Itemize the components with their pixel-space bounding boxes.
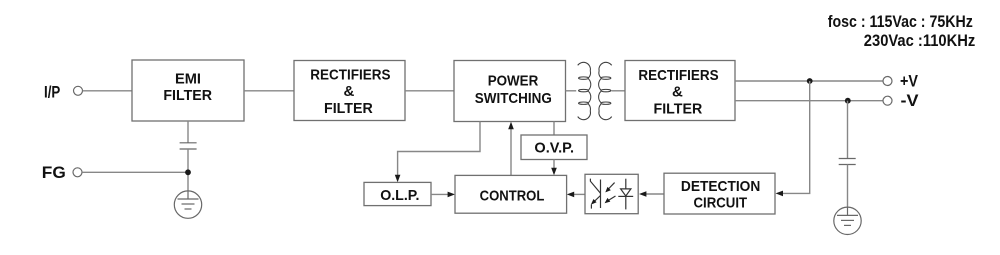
svg-text:EMI: EMI [175,71,201,88]
wire -V junction down to capacitor [847,101,849,158]
optocoupler phototransistor [590,179,600,209]
wire POWER SWITCHING to transformer [566,90,577,92]
wire POWER SWITCHING to O.L.P. [398,122,480,180]
block POWER SWITCHING [454,61,566,122]
ground (FG earth) [174,191,201,218]
wire optocoupler to CONTROL [570,193,585,195]
wire capacitor to FG ground [187,149,189,191]
svg-text:-V: -V [901,92,919,110]
svg-text:O.V.P.: O.V.P. [534,139,574,156]
terminal -V [883,96,892,105]
svg-text:POWER: POWER [488,72,539,89]
node junction on -V [845,98,851,104]
arrowhead into optocoupler right [639,191,646,197]
svg-text:RECTIFIERS: RECTIFIERS [310,67,390,84]
block CONTROL [455,175,567,213]
arrowhead on phototransistor emitter [591,199,597,205]
svg-text:RECTIFIERS: RECTIFIERS [638,67,718,84]
terminal I/P [74,86,83,95]
svg-text:CONTROL: CONTROL [480,187,545,204]
arrowhead into CONTROL top [551,168,557,175]
wire capacitor to ground [847,165,849,208]
wire CONTROL up to POWER SWITCHING [510,125,512,175]
svg-text:fosc : 115Vac : 75KHz: fosc : 115Vac : 75KHz [828,13,973,31]
arrowhead into CONTROL right [567,192,574,198]
wire I/P to EMI FILTER [83,90,132,92]
wire +V output [735,80,883,82]
svg-text:I/P: I/P [44,84,60,102]
svg-text:&: & [343,83,354,100]
wire +V junction down to DETECTION CIRCUIT [779,81,810,193]
svg-text:O.L.P.: O.L.P. [380,187,419,204]
arrowhead into O.L.P. top [395,175,401,182]
block EMI FILTER [132,60,244,121]
block RECTIFIERS & FILTER (output) [625,61,735,121]
svg-text:&: & [672,83,683,100]
terminal FG [73,168,82,177]
wire FG to ground node [82,171,188,173]
optocoupler light arrow 2 [605,196,616,203]
wire RECTIFIERS to POWER SWITCHING [405,90,454,92]
optocoupler LED [618,179,633,210]
label fosc frequencies [828,13,976,50]
wire DETECTION CIRCUIT to optocoupler [643,193,665,195]
wire POWER SWITCHING down to O.V.P. [553,122,555,136]
ground (output side earth) [834,207,861,234]
block DETECTION CIRCUIT [664,173,775,214]
transformer T1 secondary winding [599,62,612,119]
optocoupler U1 box [585,174,638,213]
block O.V.P. [521,135,587,160]
capacitor C1 (input Y-cap) [180,143,197,149]
terminal +V [883,77,892,86]
block O.L.P. [364,182,431,205]
arrowhead into CONTROL left [448,192,455,198]
svg-text:FG: FG [42,164,66,182]
svg-text:230Vac :110KHz: 230Vac :110KHz [864,32,976,50]
svg-text:FILTER: FILTER [654,101,703,118]
transformer T1 primary winding [578,62,591,119]
wire EMI FILTER to RECTIFIERS [244,90,294,92]
node junction on +V [807,78,813,84]
optocoupler light arrow 1 [605,183,614,193]
svg-text:+V: +V [900,73,918,91]
wire transformer to output RECTIFIERS [612,90,626,92]
svg-text:SWITCHING: SWITCHING [475,90,552,107]
svg-text:CIRCUIT: CIRCUIT [694,194,748,211]
svg-text:FILTER: FILTER [163,87,212,104]
wire -V output [735,100,883,102]
svg-text:DETECTION: DETECTION [681,178,760,195]
capacitor C2 (output Y-cap) [839,159,856,165]
wire O.L.P. to CONTROL [431,193,452,195]
wire EMI FILTER down to capacitor [187,121,189,143]
arrowhead into DETECTION CIRCUIT right [776,191,784,197]
arrowhead into POWER SWITCHING bottom [508,122,514,129]
svg-text:FILTER: FILTER [324,100,373,117]
wire O.V.P. down to CONTROL [553,160,555,173]
block RECTIFIERS & FILTER (input) [294,61,405,121]
node junction FG [185,169,191,175]
